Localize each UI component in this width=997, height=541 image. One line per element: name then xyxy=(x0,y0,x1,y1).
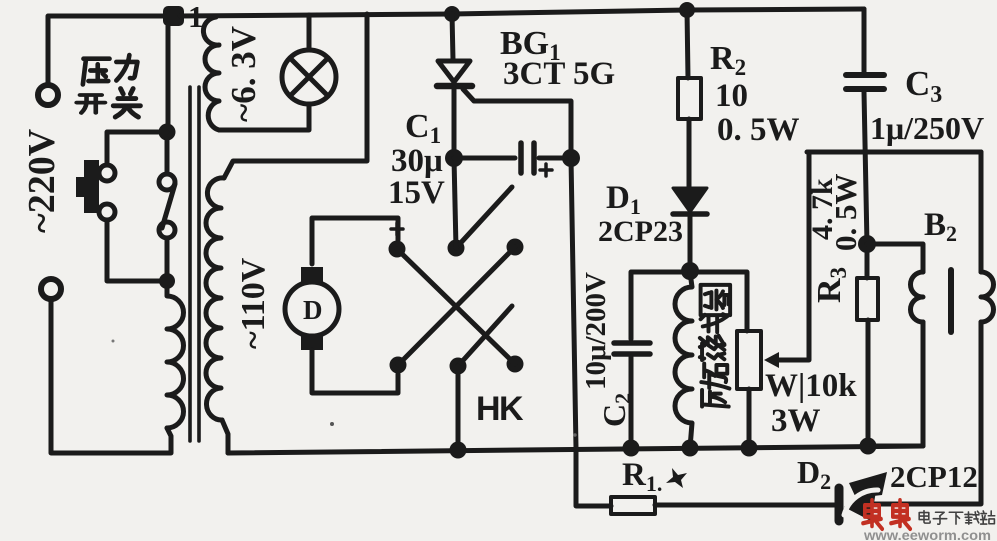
junction C1 left xyxy=(445,149,463,167)
watermark site name 电子下载站 xyxy=(919,511,995,525)
HK cross wire xyxy=(398,247,515,365)
capacitor C2 xyxy=(614,340,650,346)
label 励磁线圈 (rotated) xyxy=(700,285,730,407)
wire junction to C2 xyxy=(631,272,690,339)
junction xyxy=(159,273,175,289)
wire node1 down xyxy=(166,24,171,132)
wire lamp top xyxy=(307,15,312,50)
speck xyxy=(112,340,115,343)
svg-text:~110V: ~110V xyxy=(235,257,272,349)
站 xyxy=(981,511,995,524)
载 xyxy=(965,511,979,524)
wire top rail to 110V winding xyxy=(224,14,367,178)
svg-text:10: 10 xyxy=(715,78,748,114)
svg-text:30μ: 30μ xyxy=(391,143,443,179)
CJK drawn glyphs xyxy=(77,55,730,406)
wire C1 right down to bottom branch xyxy=(571,158,611,506)
B1 6.3V winding xyxy=(203,17,219,130)
svg-text:R2: R2 xyxy=(710,40,746,80)
D2 arrow decoration xyxy=(849,472,887,498)
wire motor bottom xyxy=(312,350,398,393)
R1 star xyxy=(666,468,687,488)
svg-text:~6. 3V: ~6. 3V xyxy=(224,26,263,122)
junction R3 bottom xyxy=(860,438,877,455)
junction pot bottom xyxy=(741,440,758,457)
wire HK middle bottom to rail xyxy=(456,366,461,450)
svg-text:D1: D1 xyxy=(606,180,641,219)
wiper rail xyxy=(807,150,981,155)
HK blade top xyxy=(456,187,512,248)
wire primary bottom to terminal xyxy=(51,299,171,453)
线 xyxy=(700,314,727,345)
wire BG1 gate xyxy=(463,89,571,150)
wire HK middle top up to C1 xyxy=(454,158,456,248)
B2 secondary winding xyxy=(981,272,993,322)
wire junction to left contact xyxy=(107,132,167,163)
transformer B1 core xyxy=(188,87,192,441)
watermark xyxy=(863,500,995,541)
capacitor C1 xyxy=(454,156,515,161)
svg-text:D2: D2 xyxy=(797,454,831,494)
svg-text:0. 5W: 0. 5W xyxy=(717,112,800,148)
svg-text:HK: HK xyxy=(476,390,524,428)
wire B2 secondary bottom xyxy=(874,322,981,504)
lamp xyxy=(282,50,336,104)
wire to B2 primary xyxy=(867,244,923,272)
switch contact xyxy=(99,204,115,220)
junction C2 bottom xyxy=(623,440,640,457)
下 xyxy=(949,512,962,524)
excitation coil winding xyxy=(675,272,692,448)
wire 6.3V bottom to lamp xyxy=(219,104,309,130)
wire rail to thyristor xyxy=(452,14,453,60)
switch contact xyxy=(159,174,175,190)
svg-text:1: 1 xyxy=(188,0,204,34)
svg-text:C2: C2 xyxy=(596,393,635,427)
junction R3 top xyxy=(858,235,876,253)
圈 xyxy=(701,285,731,315)
HK switch contacts xyxy=(389,241,406,258)
电 xyxy=(919,511,930,523)
磁 xyxy=(700,343,727,377)
terminal 220V bottom xyxy=(41,279,61,299)
potentiometer W xyxy=(737,331,761,389)
svg-text:W|10k: W|10k xyxy=(765,368,857,404)
svg-text:0. 5W: 0. 5W xyxy=(828,174,863,252)
bottom rail xyxy=(228,446,923,453)
label 压 xyxy=(83,59,110,85)
svg-text:D: D xyxy=(303,295,323,325)
svg-text:2CP23: 2CP23 xyxy=(598,215,683,248)
junction top rail R2 xyxy=(679,2,695,18)
resistor R3 xyxy=(865,244,870,278)
speck xyxy=(330,422,334,426)
junction top rail BG1 xyxy=(444,6,460,22)
terminal 220V top xyxy=(38,85,58,105)
wire pot bottom xyxy=(747,389,752,448)
label 开 xyxy=(77,95,105,113)
switch contact xyxy=(159,222,175,238)
junction D1 xyxy=(681,262,699,280)
wire B2 primary bottom xyxy=(872,322,923,446)
wire right pole top xyxy=(165,139,170,173)
wire right pole bottom xyxy=(165,239,170,281)
B2 core xyxy=(948,270,954,332)
resistor R2 xyxy=(678,78,701,119)
wire D1 to junction xyxy=(688,216,693,271)
label 关 xyxy=(113,89,140,117)
wire junction to W pot xyxy=(690,272,747,331)
svg-text:15V: 15V xyxy=(388,175,445,211)
svg-text:www.eeworm.com: www.eeworm.com xyxy=(863,527,991,541)
junction rail HK xyxy=(450,442,467,459)
励 xyxy=(701,374,729,406)
wire terminal to node 1 xyxy=(48,16,164,85)
thyristor BG1 xyxy=(438,61,470,82)
wire R2 to D1 xyxy=(687,119,692,188)
svg-text:10μ/200V: 10μ/200V xyxy=(580,272,612,390)
wire R1 to D2 xyxy=(655,503,836,508)
top rail xyxy=(180,9,864,16)
B1 110V winding xyxy=(206,178,224,420)
plus mark motor xyxy=(391,223,403,235)
HK cross wire xyxy=(397,249,515,364)
svg-text:R1.: R1. xyxy=(622,457,662,496)
switch button xyxy=(84,160,99,213)
svg-text:~220V: ~220V xyxy=(21,128,63,233)
wire rail to R2 xyxy=(687,10,688,78)
wire 110V bottom to rail xyxy=(222,420,228,453)
svg-text:2CP12: 2CP12 xyxy=(890,459,978,494)
resistor R1 xyxy=(611,497,655,514)
transformer B1 primary winding xyxy=(167,288,184,428)
diode D1 xyxy=(673,188,707,212)
svg-text:3W: 3W xyxy=(771,403,821,439)
HK blade bottom xyxy=(458,306,512,366)
capacitor C3 xyxy=(862,9,867,72)
bug 虫 red 2 xyxy=(891,500,910,529)
wire motor top xyxy=(312,218,398,264)
svg-text:R3: R3 xyxy=(811,267,851,303)
bug 虫 red 1 xyxy=(863,500,882,529)
B2 primary winding xyxy=(910,272,923,322)
svg-text:3CT 5G: 3CT 5G xyxy=(503,56,615,92)
diode D2 xyxy=(835,488,844,521)
label 力 xyxy=(116,55,137,80)
wire B2 secondary top xyxy=(979,152,984,272)
junction coil bottom xyxy=(682,440,699,457)
motor D xyxy=(285,282,339,336)
plus mark C1 xyxy=(540,164,552,176)
wire left pole down xyxy=(107,221,167,281)
svg-text:C1: C1 xyxy=(405,108,441,148)
junction C1 right xyxy=(562,149,580,167)
wire BG1 cathode down xyxy=(452,88,457,150)
wiper arrow xyxy=(764,352,779,368)
svg-text:C3: C3 xyxy=(905,64,942,108)
svg-text:1μ/250V: 1μ/250V xyxy=(870,110,984,146)
switch contact xyxy=(99,165,115,181)
子 xyxy=(933,512,946,524)
node 1 xyxy=(163,6,184,26)
speck xyxy=(573,433,576,436)
switch blade xyxy=(162,184,175,228)
junction xyxy=(159,124,176,141)
svg-text:B2: B2 xyxy=(924,207,957,246)
